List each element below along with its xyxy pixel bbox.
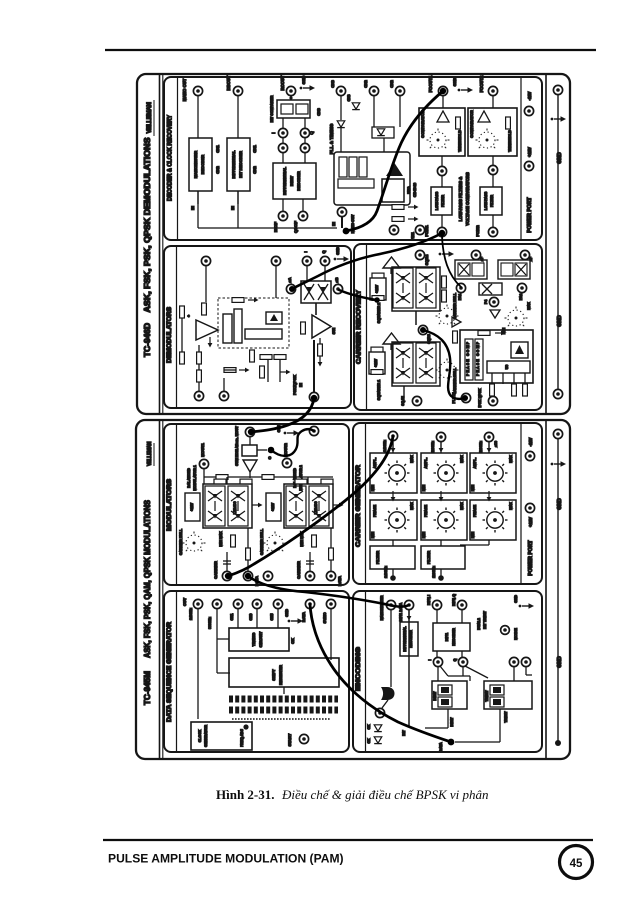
svg-text:ENCODER: ENCODER xyxy=(452,628,456,646)
balanced squarer 2 cells xyxy=(393,268,413,308)
resistor R5 + arrow xyxy=(232,298,244,303)
svg-text:LOW-PASS FILTERS &: LOW-PASS FILTERS & xyxy=(458,177,463,222)
svg-text:GND: GND xyxy=(301,75,306,84)
svg-text:CK1: CK1 xyxy=(230,613,234,620)
arrows between rows xyxy=(391,491,396,502)
svg-text:TRIBIT: TRIBIT xyxy=(485,690,489,702)
test point DIFF Q xyxy=(457,600,466,609)
test point PSK QPSK IN xyxy=(309,392,318,401)
phase adjust block PA1 xyxy=(455,260,487,279)
GND bus wire xyxy=(557,438,559,742)
svg-text:CX2: CX2 xyxy=(252,165,257,173)
input buffer triangle xyxy=(452,317,461,327)
DIP tiny digits xyxy=(232,718,330,720)
svg-text:CARRIER: CARRIER xyxy=(296,561,301,579)
svg-text:MAX: MAX xyxy=(460,454,464,462)
wire cord DATA to DIFF DATA xyxy=(248,576,409,607)
svg-text:OUT: OUT xyxy=(182,597,187,606)
svg-text:FREQ ADJ: FREQ ADJ xyxy=(240,729,244,747)
GND node top xyxy=(553,85,562,94)
XOR gate manchester xyxy=(381,687,395,700)
sub-panel DECODER & CLOCK RECOVERY xyxy=(164,77,542,240)
block CLOCK GENERATOR xyxy=(191,722,252,750)
DIP switch row 1 xyxy=(229,696,338,703)
sub-panel CARRIER RECOVERY xyxy=(354,244,542,410)
block MANCHESTER DECODER xyxy=(189,138,212,191)
block TIMING CIRCUIT xyxy=(229,628,289,651)
summing block xyxy=(242,445,257,456)
block SHIFT REGISTER xyxy=(229,658,339,687)
wire cord FCOUT1 to IN xyxy=(346,91,443,231)
long wire from DIFF DATA xyxy=(408,610,410,727)
svg-text:LOW-PASS: LOW-PASS xyxy=(484,191,488,210)
wires comparator columns xyxy=(442,96,444,108)
svg-text:SYNC: SYNC xyxy=(322,612,327,623)
svg-text:IPSK QPSK: IPSK QPSK xyxy=(478,388,482,408)
modulator 2 +12V box xyxy=(266,493,281,521)
test point SQR2 xyxy=(418,325,427,334)
block PHASE 1 xyxy=(370,500,417,540)
carrier null dial squarer1 xyxy=(436,359,459,379)
wire DBOUT to decoder xyxy=(237,96,239,138)
svg-text:IN: IN xyxy=(298,383,303,387)
svg-text:COMPARATOR: COMPARATOR xyxy=(469,110,474,138)
ground arrow decoder xyxy=(300,85,315,91)
svg-text:ASK, FSK, PSK, QPSK DEMODULATI: ASK, FSK, PSK, QPSK DEMODULATIONS xyxy=(143,137,152,313)
svg-text:PLL & TIMING: PLL & TIMING xyxy=(329,123,334,154)
svg-text:45: 45 xyxy=(570,858,583,870)
svg-text:PHASE: PHASE xyxy=(473,504,477,517)
wires to AMPL xyxy=(392,441,394,453)
svg-text:PHASE: PHASE xyxy=(373,504,377,517)
test point ISOIF xyxy=(278,211,287,220)
svg-text:DATA SEQUENCE GENERATOR: DATA SEQUENCE GENERATOR xyxy=(166,621,173,722)
test point DIFF I xyxy=(432,600,441,609)
svg-text:LOW-PASS: LOW-PASS xyxy=(435,191,439,210)
ground arrow xyxy=(551,461,566,467)
svg-text:DBOUT: DBOUT xyxy=(226,75,231,90)
svg-text:CK5: CK5 xyxy=(270,613,274,620)
wire cord FCIN1 to phiA xyxy=(292,233,442,289)
test point bottom mid xyxy=(219,391,228,400)
svg-text:DIBIT: DIBIT xyxy=(433,691,437,701)
test point bottom left xyxy=(194,391,203,400)
GND node bottom xyxy=(553,389,562,398)
resistor R4 + arrow xyxy=(224,368,236,373)
svg-text:VOLTAGE COMPARATORS: VOLTAGE COMPARATORS xyxy=(465,172,470,226)
block DIFFERENTIAL BIT DECODER xyxy=(227,138,250,191)
test point demod in A xyxy=(201,256,210,265)
test point CARRIER 1 xyxy=(222,571,231,580)
test point CX2 xyxy=(369,86,378,95)
wire RCOUT to bit comparer xyxy=(290,96,292,100)
svg-text:DIBIT: DIBIT xyxy=(289,175,294,186)
filter outputs xyxy=(392,569,394,576)
svg-text:ø90: ø90 xyxy=(494,441,498,447)
chip U4 wide xyxy=(245,329,282,339)
resistor R3 xyxy=(198,345,200,352)
svg-text:+: + xyxy=(186,314,191,317)
svg-text:+12V: +12V xyxy=(374,358,378,367)
test point phiB xyxy=(333,284,342,293)
svg-text:AMPL.: AMPL. xyxy=(424,458,428,469)
wire to SQR2 xyxy=(415,311,417,325)
svg-text:FCIN2: FCIN2 xyxy=(475,225,480,237)
svg-text:BALANCED: BALANCED xyxy=(293,468,297,488)
svg-text:SQUARER 1: SQUARER 1 xyxy=(377,380,381,400)
svg-text:CX3: CX3 xyxy=(316,107,321,115)
svg-text:DECODER & CLOCK RECOVERY: DECODER & CLOCK RECOVERY xyxy=(167,114,174,201)
MODE button xyxy=(501,626,510,635)
test point QSOIF xyxy=(298,211,307,220)
wires PHASE to FILTER xyxy=(392,540,394,546)
svg-text:MIN: MIN xyxy=(422,531,426,538)
svg-text:DATA: DATA xyxy=(439,742,443,752)
svg-text:MODULATOR 2: MODULATOR 2 xyxy=(299,465,303,490)
test point SYNC xyxy=(326,599,335,608)
block AMPL 2 xyxy=(421,453,467,493)
sub-panel ENCODING xyxy=(353,591,542,752)
chip U3 xyxy=(234,309,242,343)
svg-text:DIFFERENTIAL: DIFFERENTIAL xyxy=(403,626,407,652)
block DIFFERENTIAL ENCODER xyxy=(400,622,418,656)
modulator 1 cells xyxy=(203,484,252,528)
svg-text:IN: IN xyxy=(331,222,336,226)
test point GND mid xyxy=(263,571,272,580)
svg-text:CX3: CX3 xyxy=(330,79,335,87)
svg-text:PHASE COMP: PHASE COMP xyxy=(476,341,480,376)
block LOW-PASS FILTER 1 xyxy=(431,187,452,215)
wire to PSK QPSK IN xyxy=(313,340,315,392)
sub-panel DATA SEQUENCE GENERATOR xyxy=(164,591,349,752)
test point FCOUT1 xyxy=(438,86,447,95)
diode CK a xyxy=(374,725,382,732)
test point gate out xyxy=(375,708,384,717)
test points I Q row2 xyxy=(278,143,287,152)
svg-text:CK0: CK0 xyxy=(249,613,253,620)
wire MANC OUT to decoder xyxy=(197,96,199,138)
GND node top xyxy=(553,429,562,438)
test point MOUT1 xyxy=(199,459,208,468)
SQUARER 2 triangle xyxy=(383,257,400,268)
svg-text:MAX: MAX xyxy=(509,454,513,462)
GND strip divider xyxy=(545,420,547,759)
pot PA1 xyxy=(456,283,465,292)
block PHASE 2 xyxy=(421,500,467,540)
FSK demod dashed box xyxy=(218,298,289,348)
svg-text:REGISTER: REGISTER xyxy=(278,665,283,685)
carrier null dial mod1 xyxy=(183,532,206,552)
title strip divider xyxy=(159,420,161,759)
pins below U6 xyxy=(491,373,493,384)
svg-text:GENERATOR: GENERATOR xyxy=(204,725,208,748)
test point MOUT xyxy=(247,429,254,436)
svg-text:PA1: PA1 xyxy=(458,294,462,301)
ground arrow xyxy=(439,251,454,257)
svg-text:I: I xyxy=(303,251,308,252)
ASK demod wires xyxy=(205,266,207,302)
wire cord DATA out to encoder DATA xyxy=(310,604,451,742)
wire IN manchester xyxy=(197,191,199,204)
sub-panel DEMODULATORS xyxy=(164,246,351,408)
svg-text:FIN1: FIN1 xyxy=(411,232,415,240)
svg-text:VELLEMAN: VELLEMAN xyxy=(146,102,153,134)
test point ph2 xyxy=(520,250,529,259)
block BIT COMPARER xyxy=(277,100,310,118)
svg-text:MIN: MIN xyxy=(371,484,375,491)
svg-text:2400Hz: 2400Hz xyxy=(189,608,193,620)
svg-text:MAX: MAX xyxy=(410,501,414,509)
svg-text:FILTER: FILTER xyxy=(490,195,494,207)
svg-text:Q: Q xyxy=(453,658,457,661)
svg-text:DIFFERENTIAL: DIFFERENTIAL xyxy=(282,166,287,195)
svg-text:THRESHOLD: THRESHOLD xyxy=(458,130,462,152)
svg-text:CX1: CX1 xyxy=(215,144,220,152)
svg-text:PHASE COMP: PHASE COMP xyxy=(466,341,470,376)
svg-text:GND: GND xyxy=(285,609,289,617)
svg-text:GND: GND xyxy=(452,77,457,86)
svg-text:U7A: U7A xyxy=(406,186,411,194)
svg-text:DEMODULATORS: DEMODULATORS xyxy=(166,307,173,363)
test point DBOUT xyxy=(233,86,242,95)
small caps below xyxy=(250,350,255,362)
test point phiA xyxy=(286,284,295,293)
test points I Q row1 xyxy=(278,128,287,137)
comparator box with triangle xyxy=(266,312,282,324)
svg-text:VELLEMAN: VELLEMAN xyxy=(147,441,153,466)
test point Q out xyxy=(458,657,467,666)
svg-text:CX3: CX3 xyxy=(347,95,351,102)
test point RCOUT xyxy=(286,86,295,95)
svg-text:C: C xyxy=(267,456,272,459)
ground arrow xyxy=(334,256,349,262)
svg-text:BIT DECODER: BIT DECODER xyxy=(238,151,243,178)
carrier null dial mod2 xyxy=(264,532,287,552)
svg-text:1200Hz: 1200Hz xyxy=(479,441,483,453)
test point mid 2 xyxy=(488,165,497,174)
multiplier block LM1496 xyxy=(301,281,331,303)
svg-text:ASK, FSK, PSK, QAM, QPSK MODUL: ASK, FSK, PSK, QAM, QPSK MODULATIONS xyxy=(143,499,152,658)
svg-text:SHIFT: SHIFT xyxy=(271,669,276,681)
comparator SUI xyxy=(312,315,331,338)
test point I xyxy=(302,256,311,265)
svg-text:AMPL.: AMPL. xyxy=(373,458,377,469)
test point ph1 xyxy=(471,250,480,259)
test point demod in B xyxy=(271,256,280,265)
resistor sum xyxy=(216,475,228,480)
wire cord phiB to squarer input xyxy=(339,290,377,300)
diode D4 small xyxy=(352,103,360,110)
block FILTER 1 xyxy=(370,546,415,569)
wires to bottom row xyxy=(226,552,228,571)
svg-text:1200Hz: 1200Hz xyxy=(431,441,435,453)
resistor R6 xyxy=(301,322,306,334)
test point ring near IN xyxy=(337,207,346,216)
svg-text:LM1496: LM1496 xyxy=(314,502,318,515)
SQ IN label wire xyxy=(403,386,405,398)
DIP switch row 2 xyxy=(229,707,338,714)
svg-text:+12V: +12V xyxy=(190,502,194,511)
svg-text:PSK/QPSK: PSK/QPSK xyxy=(292,375,297,395)
svg-text:PULSE AMPLITUDE MODULATION (PA: PULSE AMPLITUDE MODULATION (PAM) xyxy=(108,852,344,866)
svg-text:CLOCK: CLOCK xyxy=(198,729,202,742)
modulator 1 +12V box xyxy=(185,493,200,521)
ground arrow xyxy=(458,87,473,93)
test point Q xyxy=(320,256,329,265)
phase adjust block PA2 xyxy=(498,260,530,279)
test point VCO xyxy=(488,396,497,405)
test point FCIN1 xyxy=(437,227,446,236)
wire cord 2400Hz to CARRIER xyxy=(228,436,393,576)
svg-text:Q: Q xyxy=(321,250,326,253)
ground arrow xyxy=(288,618,303,624)
svg-text:GND: GND xyxy=(557,498,563,510)
svg-text:TIMING: TIMING xyxy=(251,633,256,647)
wires to dibit decoder xyxy=(282,153,284,163)
test point CARRIER 2 xyxy=(305,571,314,580)
svg-text:DATA: DATA xyxy=(337,576,342,586)
ground arrow xyxy=(284,430,299,436)
svg-text:DIFF, I: DIFF, I xyxy=(427,595,431,605)
svg-text:GND: GND xyxy=(557,315,563,327)
svg-text:+12V: +12V xyxy=(528,517,533,527)
test point DATA 2 xyxy=(326,571,335,580)
resistor R1 xyxy=(180,306,185,318)
svg-text:PA2: PA2 xyxy=(519,294,523,301)
resistors with arrows xyxy=(392,205,404,210)
wire I Q row links xyxy=(282,138,284,143)
test point C ring xyxy=(309,426,318,435)
aux points xyxy=(509,657,518,666)
svg-text:MAX: MAX xyxy=(410,454,414,462)
wire cord SQR2 to PLL IN xyxy=(423,330,465,399)
svg-text:BALANCED: BALANCED xyxy=(187,468,191,488)
sub-panel MODULATORS xyxy=(164,424,349,585)
svg-text:FCIN1: FCIN1 xyxy=(424,225,429,237)
test point FCIN2 xyxy=(488,227,497,236)
svg-text:DIFF.: DIFF. xyxy=(445,633,449,642)
svg-text:MIN: MIN xyxy=(471,484,475,491)
svg-text:MODE: MODE xyxy=(513,628,518,640)
mid multiplier block xyxy=(479,283,502,295)
svg-text:I: I xyxy=(428,659,432,660)
block FILTER 2 xyxy=(421,546,465,569)
test point 1200Hz Q xyxy=(484,432,493,441)
wires to ISOIF QSOIF xyxy=(282,199,284,211)
svg-text:CK: CK xyxy=(290,638,295,644)
wires below blocks xyxy=(447,709,449,728)
svg-text:GND: GND xyxy=(514,595,518,603)
svg-text:PHASE: PHASE xyxy=(424,504,428,517)
test point 2400Hz out xyxy=(390,433,397,440)
test point FCOUT2 xyxy=(488,86,497,95)
svg-text:MANCHESTER: MANCHESTER xyxy=(193,151,198,179)
svg-text:Điều chế & giải điều chế BPSK: Điều chế & giải điều chế BPSK vi phân xyxy=(281,787,489,802)
block AMPL 3 xyxy=(470,453,516,493)
svg-text:CK: CK xyxy=(367,724,371,730)
svg-text:2400Hz: 2400Hz xyxy=(384,566,388,578)
svg-text:MANC OUT: MANC OUT xyxy=(182,78,187,101)
svg-text:DATA: DATA xyxy=(301,612,306,622)
pot PA2 xyxy=(517,283,526,292)
svg-text:DECODER: DECODER xyxy=(296,171,301,191)
svg-text:QSOIF: QSOIF xyxy=(293,220,298,233)
wires encoder xyxy=(436,610,438,623)
block TRIBIT converter xyxy=(484,681,532,709)
block AMPL 1 xyxy=(370,453,417,493)
svg-text:CD4046: CD4046 xyxy=(412,182,417,197)
svg-text:CX1: CX1 xyxy=(252,144,257,152)
sub-panel CARRIER GENERATOR xyxy=(353,423,542,584)
test point MANCHESTER xyxy=(386,600,395,609)
svg-text:CX2: CX2 xyxy=(389,79,394,87)
svg-text:øB: øB xyxy=(334,277,339,282)
GND strip divider xyxy=(545,74,547,414)
svg-text:FILTER: FILTER xyxy=(375,551,380,565)
svg-text:MODULATORS: MODULATORS xyxy=(166,479,173,531)
chip U2 xyxy=(223,314,232,343)
ground arrow xyxy=(519,603,534,609)
svg-text:+12V: +12V xyxy=(271,502,275,511)
block DIBIT converter xyxy=(432,681,467,709)
svg-text:FCOUT2: FCOUT2 xyxy=(479,75,484,92)
svg-text:CX2: CX2 xyxy=(215,165,220,173)
plug point C xyxy=(268,447,275,454)
wire IN bus xyxy=(197,191,199,228)
block COMPARATOR 2 xyxy=(468,108,517,156)
wire IN diff decoder xyxy=(237,191,239,204)
panel TC-946D outer frame xyxy=(137,74,570,414)
carrier null dial squarer2 xyxy=(436,305,459,325)
svg-text:MAX: MAX xyxy=(460,501,464,509)
svg-text:øA: øA xyxy=(287,277,292,282)
svg-text:MOUT1: MOUT1 xyxy=(200,442,205,456)
test point DATA 1 xyxy=(243,571,252,580)
POWER PORT column xyxy=(520,77,522,240)
svg-text:-12V: -12V xyxy=(527,91,532,100)
block DIFF ENCODER xyxy=(433,623,470,651)
svg-text:DIBIT: DIBIT xyxy=(450,717,454,727)
test point CK0 xyxy=(252,599,261,608)
resistor R2 xyxy=(180,352,185,364)
svg-text:1200Hz: 1200Hz xyxy=(432,566,436,578)
svg-text:-12V: -12V xyxy=(528,437,533,446)
svg-text:MAX: MAX xyxy=(527,301,531,309)
+12V box squarer1 xyxy=(369,352,385,374)
test point CX3 xyxy=(336,86,345,95)
svg-text:CARRIER NULL: CARRIER NULL xyxy=(179,528,183,555)
block diode box xyxy=(372,127,394,138)
svg-text:MODULATOR 1: MODULATOR 1 xyxy=(193,465,197,490)
min max resistor mod1 xyxy=(231,535,236,547)
svg-text:CARRIER NULL: CARRIER NULL xyxy=(260,528,264,555)
SQUARER 1 triangle xyxy=(383,333,400,344)
svg-text:FILTER: FILTER xyxy=(426,551,431,565)
svg-text:DUAL2: DUAL2 xyxy=(477,618,481,630)
wires from I Q to PSK multiplier xyxy=(306,266,308,281)
svg-text:POWER PORT: POWER PORT xyxy=(527,196,533,232)
test point mid 1 xyxy=(437,166,446,175)
svg-text:MAX: MAX xyxy=(509,501,513,509)
PLL cluster box xyxy=(334,152,410,205)
VR dial xyxy=(505,307,528,327)
balanced squarer 1 cells xyxy=(393,343,413,383)
svg-text:FCOUT1: FCOUT1 xyxy=(428,75,433,92)
test point DIFF DATA xyxy=(406,602,413,609)
svg-text:RCOUT: RCOUT xyxy=(280,75,285,90)
svg-text:POWER PORT: POWER PORT xyxy=(528,539,534,575)
op-amp U1 xyxy=(196,320,218,340)
